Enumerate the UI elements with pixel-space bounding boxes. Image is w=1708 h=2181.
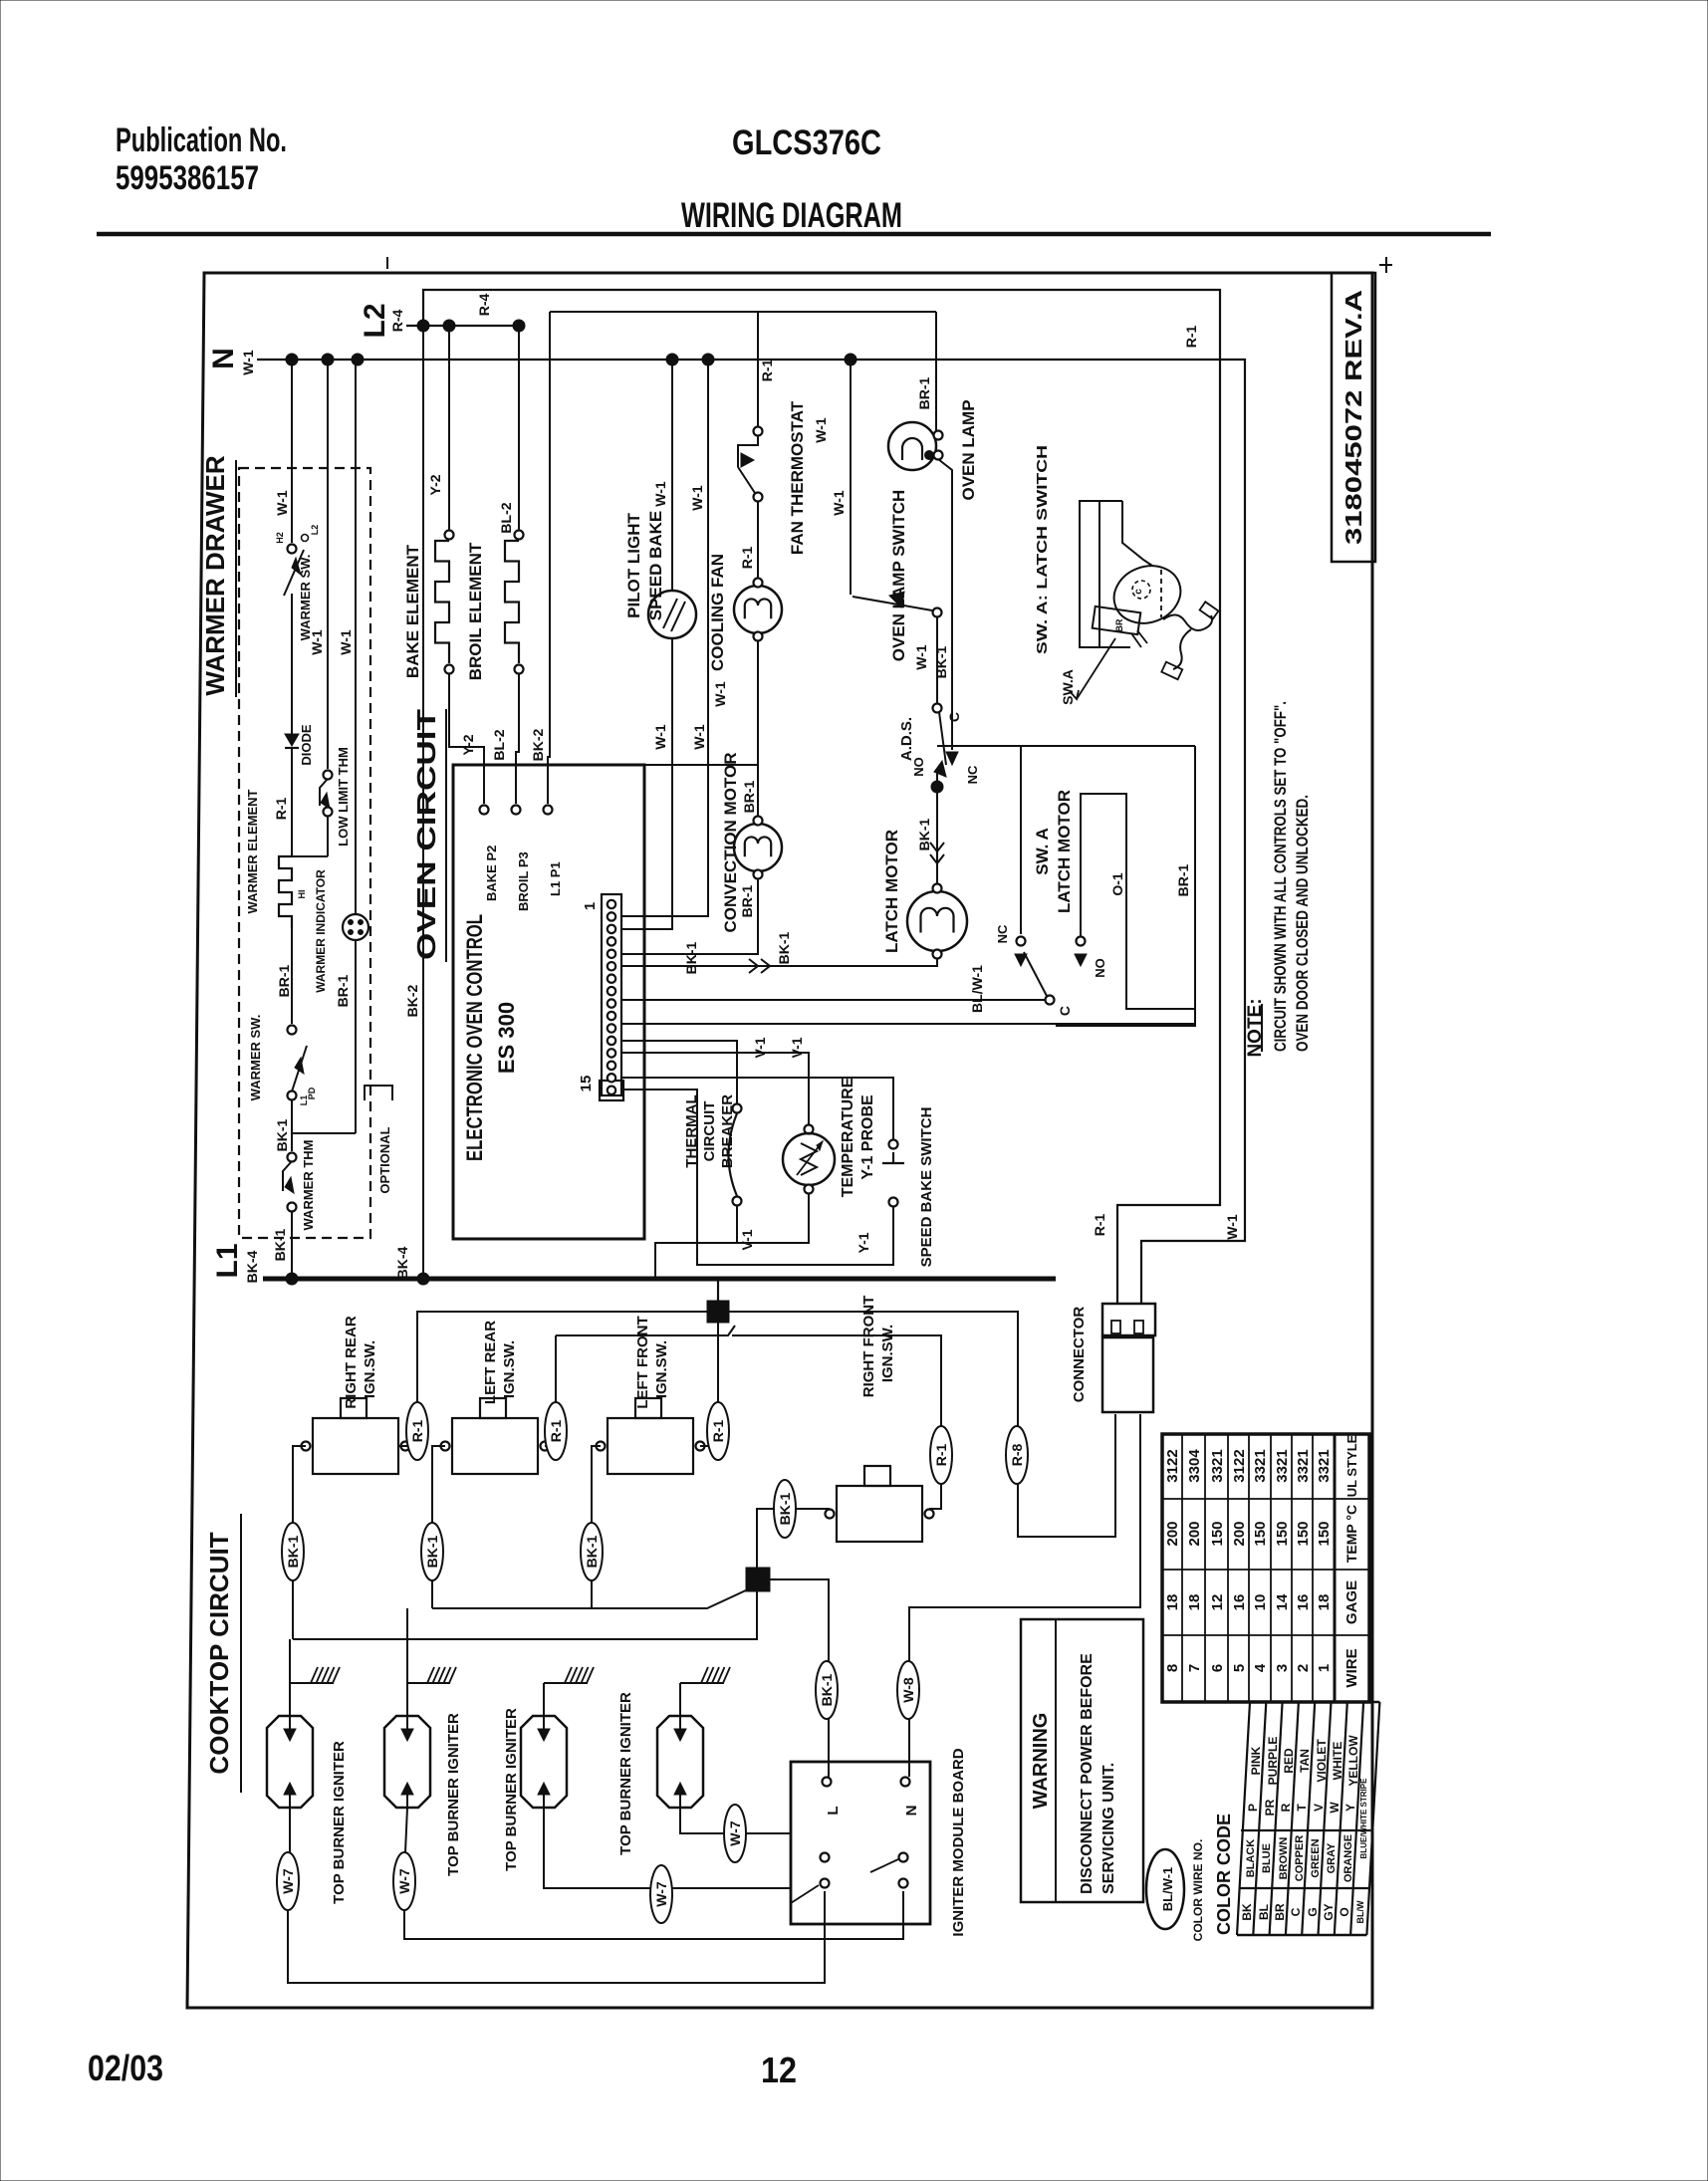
svg-text:W-1: W-1 bbox=[1224, 1214, 1240, 1240]
svg-text:GRAY: GRAY bbox=[1326, 1842, 1338, 1873]
junction dot L1 x425 bbox=[417, 1273, 429, 1285]
svg-text:BR-1: BR-1 bbox=[335, 974, 351, 1007]
wire W-1 drop x711 bbox=[621, 360, 708, 916]
color code table grid bbox=[1237, 1702, 1250, 1935]
svg-text:L2: L2 bbox=[310, 525, 320, 536]
wire speed bake return bbox=[621, 1090, 893, 1265]
R-8 oval bbox=[1006, 1426, 1028, 1484]
svg-text:WARMER INDICATOR: WARMER INDICATOR bbox=[314, 869, 328, 993]
svg-text:BL/W: BL/W bbox=[1355, 1900, 1365, 1923]
wire to SWA box top bbox=[937, 745, 1195, 747]
svg-text:BK-1: BK-1 bbox=[916, 818, 932, 850]
title rule bbox=[97, 232, 1491, 237]
wire BK-2 long drop bbox=[422, 326, 424, 1279]
junction dot N x329 bbox=[322, 354, 334, 365]
svg-text:DISCONNECT POWER BEFORE: DISCONNECT POWER BEFORE bbox=[1079, 1653, 1096, 1894]
connector strip J1 bbox=[602, 894, 621, 1095]
svg-text:318045072 REV.A: 318045072 REV.A bbox=[1341, 290, 1366, 545]
bake element heater bbox=[435, 541, 449, 663]
svg-text:SW. A: LATCH SWITCH: SW. A: LATCH SWITCH bbox=[1034, 445, 1051, 654]
svg-text:BK-1: BK-1 bbox=[272, 1228, 288, 1261]
svg-text:L1: L1 bbox=[211, 1243, 244, 1278]
junction square node 2 bbox=[746, 1568, 770, 1591]
svg-text:BR-1: BR-1 bbox=[741, 780, 757, 813]
wire latch motor to pin bbox=[621, 958, 937, 966]
wire oven lamp feed bbox=[935, 312, 937, 431]
svg-text:BK-1: BK-1 bbox=[285, 1535, 301, 1568]
latch switch cam bbox=[1105, 557, 1188, 632]
svg-text:Y: Y bbox=[1343, 1804, 1357, 1812]
svg-text:c: c bbox=[1133, 589, 1144, 595]
svg-text:W-1: W-1 bbox=[652, 724, 668, 750]
BK-1 oval right rear bbox=[282, 1523, 304, 1580]
svg-text:4: 4 bbox=[1252, 1663, 1269, 1672]
SWA NO contact bbox=[1077, 937, 1086, 946]
svg-text:CONNECTOR: CONNECTOR bbox=[1071, 1307, 1088, 1403]
svg-text:P: P bbox=[1246, 1804, 1260, 1812]
svg-text:WARMER DRAWER: WARMER DRAWER bbox=[200, 455, 230, 695]
svg-text:GLCS376C: GLCS376C bbox=[732, 123, 881, 162]
svg-text:TAN: TAN bbox=[1298, 1749, 1312, 1773]
oven lamp switch contact bbox=[933, 608, 942, 617]
latch motor M3 bbox=[907, 891, 967, 951]
revision box bbox=[1332, 273, 1375, 562]
svg-text:PINK: PINK bbox=[1249, 1746, 1263, 1775]
svg-text:BK-1: BK-1 bbox=[274, 1118, 290, 1151]
wire fan thermostat feed bbox=[757, 312, 759, 426]
svg-text:TOP BURNER IGNITER: TOP BURNER IGNITER bbox=[617, 1692, 634, 1855]
svg-text:BK-2: BK-2 bbox=[530, 728, 546, 761]
wire oven lamp switch drop bbox=[850, 360, 852, 595]
svg-text:1: 1 bbox=[1316, 1664, 1333, 1672]
svg-text:SW. A: SW. A bbox=[1033, 828, 1052, 875]
wire igniter2 W7 bbox=[405, 1808, 407, 1852]
svg-text:NC: NC bbox=[965, 765, 980, 784]
svg-text:R-8: R-8 bbox=[1009, 1444, 1025, 1467]
wire pilot to pin bbox=[621, 638, 672, 929]
BK-1 oval left front bbox=[581, 1523, 603, 1580]
svg-text:3321: 3321 bbox=[1316, 1449, 1333, 1482]
svg-text:12: 12 bbox=[761, 2050, 797, 2090]
fan thermostat bbox=[754, 427, 763, 436]
ADS NO contact bbox=[934, 761, 946, 777]
svg-text:IGN.SW.: IGN.SW. bbox=[501, 1340, 518, 1398]
wire square2 to L bbox=[770, 1579, 829, 1777]
svg-text:COPPER: COPPER bbox=[1294, 1835, 1306, 1882]
wire BR-1 upper run bbox=[550, 311, 936, 313]
wire warmer right seg2 bbox=[355, 940, 357, 1133]
SW.A latch motor loop bbox=[1020, 746, 1022, 934]
wire square1 to right rear bbox=[398, 1312, 707, 1446]
svg-text:5995386157: 5995386157 bbox=[116, 159, 259, 197]
BK-1 oval module bbox=[816, 1661, 838, 1719]
warmer switch 2 arm bbox=[292, 1046, 307, 1091]
svg-text:WARNING: WARNING bbox=[1030, 1713, 1052, 1810]
junction dot L2 at x521 bbox=[513, 320, 525, 332]
igniter 1 electrode comb bbox=[289, 1683, 291, 1716]
svg-text:W-1: W-1 bbox=[274, 490, 290, 516]
svg-text:C: C bbox=[1057, 1006, 1073, 1016]
W-7 oval 2 bbox=[393, 1852, 415, 1910]
bake element terminals bbox=[445, 531, 454, 540]
svg-text:6: 6 bbox=[1209, 1664, 1226, 1672]
junction square node 1 bbox=[707, 1301, 729, 1323]
svg-text:BK-1: BK-1 bbox=[776, 931, 792, 964]
wire W8 connector to N bbox=[909, 1414, 1140, 1777]
svg-text:G: G bbox=[1306, 1907, 1320, 1916]
svg-text:5: 5 bbox=[1231, 1664, 1248, 1672]
svg-text:BLUE/WHITE STRIPE: BLUE/WHITE STRIPE bbox=[1359, 1778, 1368, 1859]
wire pin to speed bake bbox=[621, 1078, 893, 1140]
svg-text:W-7: W-7 bbox=[396, 1868, 412, 1894]
junction dot N x359 bbox=[352, 354, 364, 365]
svg-text:R-1: R-1 bbox=[933, 1444, 949, 1467]
svg-text:OVEN CIRCUIT: OVEN CIRCUIT bbox=[411, 709, 441, 960]
pin L1 P1 bbox=[544, 806, 553, 815]
svg-text:SERVICING UNIT.: SERVICING UNIT. bbox=[1100, 1763, 1117, 1894]
svg-text:BREAKER: BREAKER bbox=[719, 1094, 736, 1168]
BK-1 oval left rear bbox=[421, 1523, 443, 1580]
svg-text:WARMER ELEMENT: WARMER ELEMENT bbox=[245, 789, 260, 913]
connector CN1 bbox=[1102, 1304, 1155, 1335]
svg-text:ORANGE: ORANGE bbox=[1342, 1834, 1354, 1882]
svg-text:CIRCUIT SHOWN WITH ALL CONTROL: CIRCUIT SHOWN WITH ALL CONTROLS SET TO "… bbox=[1271, 701, 1290, 1052]
wire BK-2 drop to control bbox=[548, 312, 550, 804]
svg-text:R-4: R-4 bbox=[389, 310, 405, 333]
warmer thermostat THM bbox=[288, 1153, 297, 1162]
top burner igniter 2 bbox=[384, 1716, 430, 1808]
svg-text:BL-2: BL-2 bbox=[491, 729, 507, 760]
SWA arm bbox=[1024, 952, 1047, 996]
svg-text:BL/W-1: BL/W-1 bbox=[1160, 1867, 1175, 1912]
connector strip pins bbox=[608, 900, 615, 908]
wire igniter2 return bbox=[404, 1891, 903, 1939]
svg-text:DIODE: DIODE bbox=[299, 724, 314, 766]
svg-text:3: 3 bbox=[1274, 1664, 1291, 1672]
svg-text:COLOR CODE: COLOR CODE bbox=[1214, 1814, 1234, 1935]
svg-text:RED: RED bbox=[1282, 1748, 1296, 1774]
svg-text:W-8: W-8 bbox=[900, 1677, 916, 1703]
junction dot L1 x293 bbox=[286, 1273, 298, 1285]
svg-text:W-1: W-1 bbox=[813, 417, 829, 443]
svg-text:L: L bbox=[825, 1806, 842, 1815]
wire gauge table grid bbox=[1162, 1434, 1369, 1702]
svg-text:WIRE: WIRE bbox=[1343, 1648, 1360, 1687]
svg-text:W-1: W-1 bbox=[831, 490, 847, 516]
svg-text:PILOT LIGHT: PILOT LIGHT bbox=[624, 513, 643, 618]
svg-text:Y-1 PROBE: Y-1 PROBE bbox=[859, 1094, 876, 1180]
svg-text:TOP BURNER IGNITER: TOP BURNER IGNITER bbox=[503, 1708, 520, 1871]
temperature probe RT1 bbox=[805, 1125, 814, 1134]
svg-text:W-1: W-1 bbox=[309, 629, 325, 655]
warmer switch arm bbox=[284, 550, 304, 596]
wire igniter1 return bbox=[288, 1891, 825, 1983]
svg-text:3122: 3122 bbox=[1231, 1449, 1248, 1482]
svg-text:16: 16 bbox=[1295, 1594, 1312, 1611]
optional bracket bbox=[365, 1086, 392, 1100]
svg-text:W-1: W-1 bbox=[338, 629, 354, 655]
warmer switch 2 contacts bbox=[288, 1026, 297, 1035]
wire L2 bus bbox=[406, 325, 519, 327]
wire warmer right drop bbox=[355, 360, 357, 914]
svg-text:COOLING FAN: COOLING FAN bbox=[708, 554, 727, 671]
svg-text:O-1: O-1 bbox=[1109, 872, 1125, 896]
wire igniter1 W7 bbox=[289, 1808, 291, 1852]
svg-text:BROIL ELEMENT: BROIL ELEMENT bbox=[466, 542, 485, 680]
electronic oven control box U1 bbox=[453, 765, 644, 1239]
svg-text:FAN THERMOSTAT: FAN THERMOSTAT bbox=[788, 400, 807, 555]
svg-text:BL-2: BL-2 bbox=[498, 502, 514, 533]
svg-text:BK-2: BK-2 bbox=[404, 984, 420, 1017]
R-1 oval right front bbox=[930, 1426, 952, 1484]
svg-text:BK-1: BK-1 bbox=[819, 1673, 835, 1706]
svg-text:W: W bbox=[1328, 1802, 1342, 1814]
wire bake element feed bbox=[448, 326, 450, 530]
junction dot L2 at x425 bbox=[417, 320, 429, 332]
svg-text:V-1: V-1 bbox=[789, 1037, 805, 1058]
svg-text:COOKTOP CIRCUIT: COOKTOP CIRCUIT bbox=[204, 1532, 234, 1774]
frame corner tick top-right bbox=[1379, 264, 1392, 266]
svg-text:TOP BURNER IGNITER: TOP BURNER IGNITER bbox=[445, 1713, 462, 1876]
svg-text:PD: PD bbox=[307, 1087, 317, 1099]
R-1 oval right rear bbox=[406, 1402, 428, 1460]
svg-text:BR: BR bbox=[1114, 618, 1124, 631]
ADS NC contact bbox=[946, 752, 958, 765]
SWA common contact bbox=[1046, 996, 1055, 1005]
oven lamp B1 bbox=[888, 422, 936, 470]
wire N bus bbox=[257, 360, 1245, 1304]
wire right front R1 bbox=[732, 1335, 941, 1509]
svg-text:LEFT REAR: LEFT REAR bbox=[482, 1321, 499, 1404]
top burner igniter 1 bbox=[267, 1716, 313, 1808]
wire pin to breaker bbox=[621, 1041, 737, 1103]
svg-text:VIOLET: VIOLET bbox=[1315, 1739, 1329, 1783]
oven lamp switch arm bbox=[853, 597, 932, 610]
svg-text:BK: BK bbox=[1240, 1903, 1254, 1921]
wire BK right front bbox=[757, 1509, 830, 1568]
svg-text:10: 10 bbox=[1252, 1594, 1269, 1611]
wire igniter2 feed bbox=[406, 1608, 408, 1716]
cooling fan motor M1 bbox=[734, 586, 782, 633]
svg-text:C: C bbox=[946, 712, 962, 722]
svg-text:18: 18 bbox=[1186, 1594, 1203, 1611]
svg-text:HI: HI bbox=[297, 890, 307, 899]
ignition switch left rear bbox=[452, 1418, 538, 1474]
broil element heater bbox=[505, 541, 519, 663]
warmer drawer dashed box bbox=[239, 468, 370, 1238]
junction dot N x711 bbox=[702, 354, 714, 365]
svg-text:CIRCUIT: CIRCUIT bbox=[701, 1101, 718, 1162]
svg-text:15: 15 bbox=[578, 1076, 595, 1092]
color wire no ellipse bbox=[1146, 1849, 1184, 1929]
svg-text:GREEN: GREEN bbox=[1310, 1838, 1322, 1877]
svg-text:R-1: R-1 bbox=[759, 360, 775, 382]
ignition switch right front bbox=[837, 1486, 922, 1542]
wire igniter3 return bbox=[544, 1808, 791, 1888]
svg-text:02/03: 02/03 bbox=[88, 2048, 163, 2088]
svg-text:R-1: R-1 bbox=[273, 798, 289, 821]
wire breaker bottom bbox=[736, 1205, 738, 1243]
junction dot N x675 bbox=[666, 354, 678, 365]
svg-text:NO: NO bbox=[1093, 958, 1107, 978]
R-1 oval left front bbox=[707, 1402, 729, 1460]
svg-text:PR: PR bbox=[1263, 1799, 1277, 1816]
svg-text:BLUE: BLUE bbox=[1261, 1843, 1273, 1873]
svg-text:BL: BL bbox=[1257, 1904, 1271, 1920]
svg-text:SPEED BAKE SWITCH: SPEED BAKE SWITCH bbox=[918, 1107, 935, 1268]
svg-text:T: T bbox=[1295, 1804, 1309, 1812]
svg-text:BK-1: BK-1 bbox=[424, 1535, 440, 1568]
svg-text:BK-1: BK-1 bbox=[683, 941, 699, 974]
svg-text:1: 1 bbox=[582, 902, 599, 910]
svg-text:N: N bbox=[207, 348, 240, 369]
wire BK left front bbox=[592, 1446, 601, 1608]
wire y1341 run bbox=[556, 1326, 735, 1335]
svg-text:BROWN: BROWN bbox=[1278, 1837, 1290, 1880]
svg-text:OVEN DOOR CLOSED AND UNLOCKED.: OVEN DOOR CLOSED AND UNLOCKED. bbox=[1293, 795, 1312, 1052]
svg-text:W-1: W-1 bbox=[240, 350, 256, 375]
diode D1 bbox=[285, 734, 299, 746]
wire fan down to convection bbox=[757, 640, 759, 824]
svg-text:BR-1: BR-1 bbox=[739, 884, 755, 917]
wire box corner to convection bbox=[644, 764, 758, 766]
svg-text:A.D.S.: A.D.S. bbox=[898, 717, 915, 761]
wire warmer mid seg2 bbox=[327, 816, 329, 856]
low limit thermostat bbox=[324, 771, 333, 780]
svg-text:BAKE P2: BAKE P2 bbox=[484, 846, 499, 901]
svg-text:R-1: R-1 bbox=[548, 1420, 564, 1443]
svg-text:BR: BR bbox=[1273, 1903, 1287, 1921]
svg-text:OVEN LAMP: OVEN LAMP bbox=[959, 399, 978, 500]
svg-text:TOP BURNER IGNITER: TOP BURNER IGNITER bbox=[331, 1741, 348, 1904]
svg-text:R-1: R-1 bbox=[739, 547, 755, 570]
wire L1 to square1 bbox=[717, 1279, 719, 1301]
wire square1 to R8 bbox=[729, 1312, 1115, 1537]
wire warmer mid drop bbox=[327, 360, 329, 769]
svg-text:Y-2: Y-2 bbox=[427, 474, 443, 495]
svg-text:OPTIONAL: OPTIONAL bbox=[377, 1126, 392, 1193]
svg-text:W-1: W-1 bbox=[691, 724, 707, 750]
svg-text:3122: 3122 bbox=[1164, 1449, 1181, 1482]
svg-text:3321: 3321 bbox=[1252, 1449, 1269, 1482]
svg-text:GAGE: GAGE bbox=[1343, 1580, 1360, 1624]
svg-text:SW.A: SW.A bbox=[1060, 669, 1076, 705]
wire convection to pin bbox=[621, 878, 758, 954]
oven lamp terminals bbox=[934, 431, 943, 440]
svg-text:BR-1: BR-1 bbox=[916, 376, 932, 409]
svg-text:R-1: R-1 bbox=[409, 1420, 425, 1443]
svg-text:WARMER THM: WARMER THM bbox=[301, 1140, 316, 1231]
BK-1 oval right front bbox=[774, 1480, 796, 1538]
wire probe bottom bbox=[737, 1193, 809, 1243]
svg-text:2: 2 bbox=[1295, 1664, 1312, 1672]
svg-text:Y-1: Y-1 bbox=[855, 1232, 871, 1253]
svg-text:W-1: W-1 bbox=[689, 485, 705, 511]
warning box bbox=[1021, 1619, 1143, 1902]
svg-text:3321: 3321 bbox=[1209, 1449, 1226, 1482]
wire warmer seg2 bbox=[291, 594, 293, 735]
wire y1615 run bbox=[432, 1589, 748, 1608]
top burner igniter 3 bbox=[521, 1716, 567, 1808]
svg-text:BK-4: BK-4 bbox=[394, 1246, 410, 1279]
svg-text:Publication No.: Publication No. bbox=[116, 121, 287, 159]
svg-text:R-1: R-1 bbox=[710, 1420, 726, 1443]
svg-text:PURPLE: PURPLE bbox=[1266, 1737, 1280, 1786]
wire swa C to pins bbox=[621, 999, 1046, 1001]
svg-text:V: V bbox=[1312, 1804, 1326, 1812]
svg-text:3304: 3304 bbox=[1186, 1449, 1203, 1483]
svg-text:Y-2: Y-2 bbox=[460, 734, 476, 755]
svg-text:LOW LIMIT THM: LOW LIMIT THM bbox=[336, 747, 351, 847]
wire warmer seg6 to L1 bbox=[291, 1211, 293, 1279]
svg-text:LEFT FRONT: LEFT FRONT bbox=[634, 1316, 651, 1408]
wire BK left rear bbox=[432, 1446, 445, 1608]
svg-text:YELLOW: YELLOW bbox=[1346, 1735, 1360, 1787]
svg-text:L2: L2 bbox=[359, 303, 391, 338]
wire square1 down to left front bbox=[700, 1323, 718, 1446]
broil element terminals bbox=[515, 531, 524, 540]
wire pin to probe bbox=[621, 1053, 809, 1125]
warmer indicator lamp bbox=[343, 914, 368, 940]
warmer switch top contact bbox=[288, 545, 297, 554]
igniter 2 electrode comb bbox=[406, 1683, 408, 1716]
ADS switch arm bbox=[939, 712, 946, 765]
svg-text:12: 12 bbox=[1209, 1594, 1226, 1611]
wire bake to pin bbox=[449, 674, 484, 804]
warmer element heater bbox=[279, 856, 292, 928]
svg-text:W-7: W-7 bbox=[727, 1820, 743, 1846]
wire thermostat to fan bbox=[757, 501, 759, 579]
top burner igniter 4 bbox=[657, 1716, 703, 1808]
frame corner tick top-left bbox=[386, 257, 388, 269]
svg-text:BK-1: BK-1 bbox=[584, 1535, 600, 1568]
igniter module board bbox=[791, 1762, 930, 1924]
junction dot N x854 bbox=[845, 354, 856, 365]
svg-text:OVEN LAMP SWITCH: OVEN LAMP SWITCH bbox=[889, 490, 908, 662]
svg-text:CONVECTION MOTOR: CONVECTION MOTOR bbox=[721, 752, 740, 932]
svg-text:WARMER SW.: WARMER SW. bbox=[248, 1015, 263, 1101]
svg-text:3321: 3321 bbox=[1295, 1449, 1312, 1482]
svg-text:BL/W-1: BL/W-1 bbox=[969, 965, 985, 1013]
svg-text:LATCH MOTOR: LATCH MOTOR bbox=[1055, 790, 1074, 913]
convection motor M2 bbox=[734, 824, 782, 871]
latch switch microswitch bbox=[1093, 606, 1141, 634]
latch switch cord bbox=[1163, 614, 1212, 630]
pin BAKE P2 bbox=[480, 806, 489, 815]
svg-text:V-1: V-1 bbox=[739, 1229, 755, 1250]
svg-text:TEMPERATURE: TEMPERATURE bbox=[840, 1077, 856, 1197]
junction dot N x293 bbox=[286, 354, 298, 365]
wire igniter4 return bbox=[680, 1808, 791, 1833]
svg-text:UL STYLE: UL STYLE bbox=[1344, 1434, 1359, 1497]
svg-text:R-4: R-4 bbox=[476, 294, 492, 317]
wire lamp lower to NC bbox=[938, 459, 952, 750]
wire ADS to latch motor bbox=[936, 769, 938, 886]
igniter 4 electrode comb bbox=[679, 1683, 681, 1716]
wire broil element feed bbox=[518, 326, 520, 530]
svg-text:14: 14 bbox=[1274, 1593, 1291, 1610]
wire warmer seg3 bbox=[291, 748, 293, 856]
svg-text:W-1: W-1 bbox=[913, 644, 929, 670]
junction dot L2 at x451 bbox=[443, 320, 455, 332]
svg-text:18: 18 bbox=[1164, 1594, 1181, 1611]
speed bake switch S2 bbox=[889, 1140, 898, 1149]
latch switch illustration bracket bbox=[1080, 501, 1130, 647]
W-7 oval 3 bbox=[650, 1865, 672, 1923]
igniter 3 electrode comb bbox=[543, 1683, 545, 1716]
svg-text:TEMP °C: TEMP °C bbox=[1343, 1505, 1359, 1563]
svg-text:WIRING DIAGRAM: WIRING DIAGRAM bbox=[681, 196, 902, 235]
